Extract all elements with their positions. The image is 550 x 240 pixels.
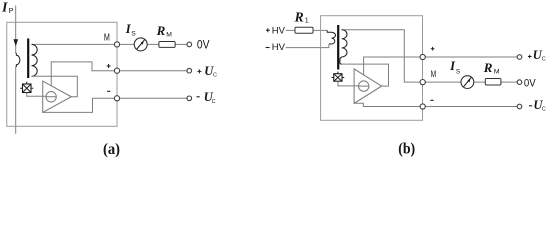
terminal 0V (b) [517,80,522,85]
wire +HV to R1 [286,29,295,31]
wire M row (a) [32,43,188,45]
secondary winding (b) [340,30,347,64]
label + (b) [431,47,435,51]
amplifier stage circle (a) [46,92,56,102]
transducer enclosure box (b) [321,16,423,121]
svg-text:S: S [456,68,461,75]
caption (a) [103,141,120,158]
label - (b) [430,99,433,101]
label 0V (b) [524,78,536,90]
resistor R_M (b) [485,79,501,86]
node + (a) [114,68,119,73]
node M (a) [114,42,119,47]
label R_1 [294,10,309,25]
terminal +Uc (b) [517,55,522,60]
svg-text:1: 1 [305,18,309,25]
current source I_S (b) [461,76,474,89]
node + (b) [420,54,425,59]
svg-text:M: M [431,69,437,79]
svg-text:R: R [294,10,304,25]
svg-text:0V: 0V [197,39,210,52]
svg-text:C: C [213,72,217,78]
svg-text:C: C [212,99,216,105]
wire secondary bottom to amplifier output (a) [32,76,78,96]
label -HV [266,42,286,53]
amplifier stage circle (b) [359,81,369,91]
wire positive supply (a) [51,62,187,86]
svg-text:P: P [9,6,14,15]
label I_P [1,0,14,15]
hall sensor (b) [332,72,345,82]
terminal -Uc (a) [187,96,192,101]
caption (b) [398,140,415,157]
label I_S (b) [449,59,461,75]
wire hall to amplifier (b) [338,81,359,86]
magnetic core (a) [27,39,29,79]
op-amp U2 (b) [354,69,382,103]
svg-text:HV: HV [272,26,286,37]
wire primary output [15,67,17,134]
terminal +Uc (a) [187,68,192,73]
node - (b) [420,104,425,109]
svg-text:S: S [131,30,136,37]
svg-text:C: C [542,107,546,113]
label -Uc (b) [529,98,546,112]
svg-text:HV: HV [272,42,286,53]
label R_M (b) [483,60,500,75]
svg-text:M: M [104,31,110,42]
label -Uc (a) [197,90,216,105]
wire hall to amplifier (a) [27,93,46,97]
primary winding (b) [327,30,335,44]
wire secondary top to node M (b) [341,30,517,82]
op-amp U1 (a) [43,81,72,112]
magnetic core (b) [337,25,339,70]
wire negative supply (a) [43,98,187,112]
label +Uc (b) [528,48,546,62]
svg-text:M: M [166,31,172,38]
label +HV [266,26,286,37]
label I_S (a) [125,22,137,37]
wire primary input [15,6,17,53]
svg-text:C: C [542,57,546,63]
label M (b) [431,69,437,79]
svg-text:0V: 0V [524,78,536,90]
resistor R_M (a) [159,42,175,48]
svg-text:I: I [1,0,8,15]
arrow I_P direction [13,39,18,46]
wire negative supply (b) [354,103,517,106]
label M (a) [104,31,110,42]
current source I_S (a) [134,38,147,51]
wire secondary bottom to amplifier output (b) [341,64,388,86]
hall sensor (a) [20,82,33,93]
svg-text:R: R [483,60,493,75]
terminal -Uc (b) [517,104,522,109]
node - (a) [114,96,119,101]
primary winding L1a [16,53,20,68]
svg-text:R: R [156,23,166,38]
wire positive supply (b) [364,57,518,75]
label 0V (a) [197,39,210,52]
svg-text:M: M [494,69,500,76]
node M (b) [420,80,425,85]
label R_M (a) [156,23,173,38]
wire R1 to primary winding [313,29,327,31]
label +Uc (a) [197,64,217,78]
wire -HV to primary winding [286,44,329,48]
terminal 0V (a) [187,42,192,47]
label + (a) [107,64,111,68]
secondary winding (a) [32,44,38,76]
transducer enclosure box (a) [7,22,117,126]
svg-text:(b): (b) [398,140,415,157]
svg-text:(a): (a) [103,141,120,158]
label - (a) [107,90,110,92]
resistor R1 [295,27,313,33]
